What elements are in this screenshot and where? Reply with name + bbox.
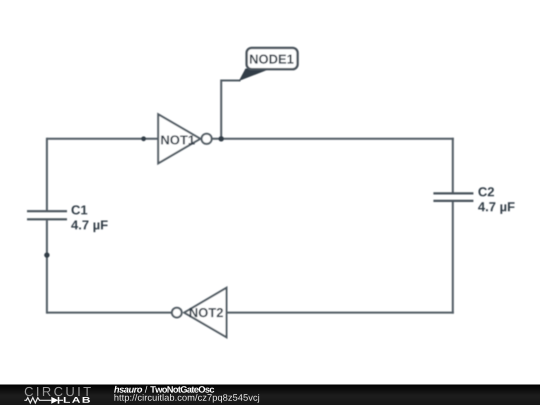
wire right rail upper (to C2 top plate): [452, 138, 454, 193]
node NODE1 label: [250, 55, 294, 64]
wire right rail lower (C2 bottom plate to bottom wire): [452, 202, 454, 314]
capacitor C1 plates: [27, 211, 67, 219]
footer bar: [0, 0, 1, 1]
node NODE1 flag box: [247, 48, 298, 69]
footer credit author hsauro: [114, 386, 142, 393]
C1 name label: [72, 205, 88, 214]
wire top-left (C1 top to NOT1 input): [47, 138, 158, 140]
inverter gate NOT1 (triangle): [158, 114, 200, 163]
NOT2 output bubble: [172, 308, 182, 318]
C2 name label: [478, 187, 494, 196]
CircuitLab logo word CIRCUIT: [25, 387, 91, 396]
logo diode: [51, 397, 58, 404]
inverter gate NOT2 (triangle pointing left): [184, 288, 226, 337]
junction node A (NOT1 output / NODE1): [219, 136, 224, 141]
capacitor C2 plates: [433, 193, 473, 201]
wire left rail upper (top wire to C1 top plate): [46, 138, 48, 210]
NOT1 output bubble: [202, 134, 212, 144]
C1 value label 4.7 uF: [71, 220, 107, 232]
C2 value label 4.7 uF: [478, 202, 514, 214]
wire bottom-right (to NOT2 input): [227, 312, 454, 314]
footer credit separator: [145, 386, 148, 393]
wire NOT1 output to top-right corner: [212, 138, 454, 140]
logo resistor zigzag: [24, 398, 51, 403]
footer credit title TwoNotGateOsc: [150, 386, 214, 393]
wire bottom-left (NOT2 output bubble to left rail): [47, 312, 172, 314]
footer URL line: [114, 394, 259, 403]
NOT2 label: [190, 308, 223, 317]
logo word LAB: [64, 397, 90, 403]
wire NODE1 stub (junction up and right to flag tail): [221, 81, 240, 139]
junction dot left of NOT1 input: [141, 136, 146, 141]
wire left rail lower (C1 bottom plate to bottom wire): [46, 220, 48, 313]
node NODE1 flag tail: [239, 69, 269, 82]
NOT1 label: [161, 135, 194, 144]
junction dot on left rail below C1: [44, 252, 49, 257]
